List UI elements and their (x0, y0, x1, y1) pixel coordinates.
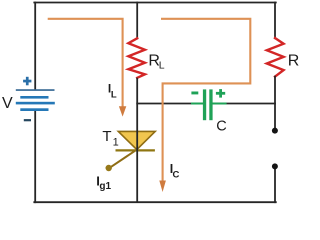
switch contact upper dot (272, 128, 278, 134)
svg-text:g1: g1 (99, 181, 111, 192)
battery V plate 1 (long thin) (16, 89, 55, 91)
capacitor C lead left (192, 103, 203, 105)
capacitor C plate right (209, 89, 212, 120)
battery V plate 4 (short thick) (20, 108, 48, 111)
wire top (34, 2, 275, 4)
capacitor minus sign (191, 92, 198, 95)
svg-text:T: T (102, 128, 111, 145)
battery V plate 3 (long) (16, 102, 55, 105)
wire capacitor right (226, 103, 276, 105)
current arrow I_L head (119, 106, 126, 116)
wire right lower (switch to bottom) (274, 167, 276, 203)
svg-text:L: L (159, 59, 165, 71)
battery V plate 2 (short thick) (20, 96, 48, 99)
wire right upper (top to R) (274, 3, 276, 39)
wire right middle (R to switch) (274, 77, 276, 131)
thyristor T1 gate dot (106, 165, 112, 171)
svg-text:C: C (173, 169, 180, 180)
current path I_L (orange) (48, 19, 123, 107)
thyristor T1 cathode bar (116, 149, 155, 151)
thyristor T1 triangle (118, 131, 155, 149)
capacitor C plate left (203, 89, 206, 120)
thyristor T1 gate lead (110, 151, 135, 168)
resistor R (267, 38, 284, 77)
svg-text:C: C (216, 119, 226, 135)
wire bottom (34, 201, 275, 203)
switch contact lower dot (272, 163, 278, 169)
svg-text:V: V (2, 95, 13, 112)
current arrow I_C head (159, 181, 166, 193)
current path I_C (orange) (161, 19, 250, 181)
battery plus sign (23, 80, 31, 83)
wire capacitor left (137, 103, 192, 105)
wire left upper (top to battery) (34, 3, 36, 90)
wire left lower (battery to bottom) (34, 111, 36, 202)
capacitor plus sign (216, 92, 225, 95)
capacitor C lead right (213, 103, 226, 105)
battery minus sign (24, 119, 31, 121)
wire middle upper (top to RL) (136, 3, 138, 39)
svg-text:L: L (111, 89, 117, 100)
resistor RL (128, 38, 145, 78)
svg-text:R: R (288, 52, 300, 69)
wire middle lower (RL through T1 to bottom) (136, 78, 138, 202)
svg-text:1: 1 (113, 136, 119, 148)
